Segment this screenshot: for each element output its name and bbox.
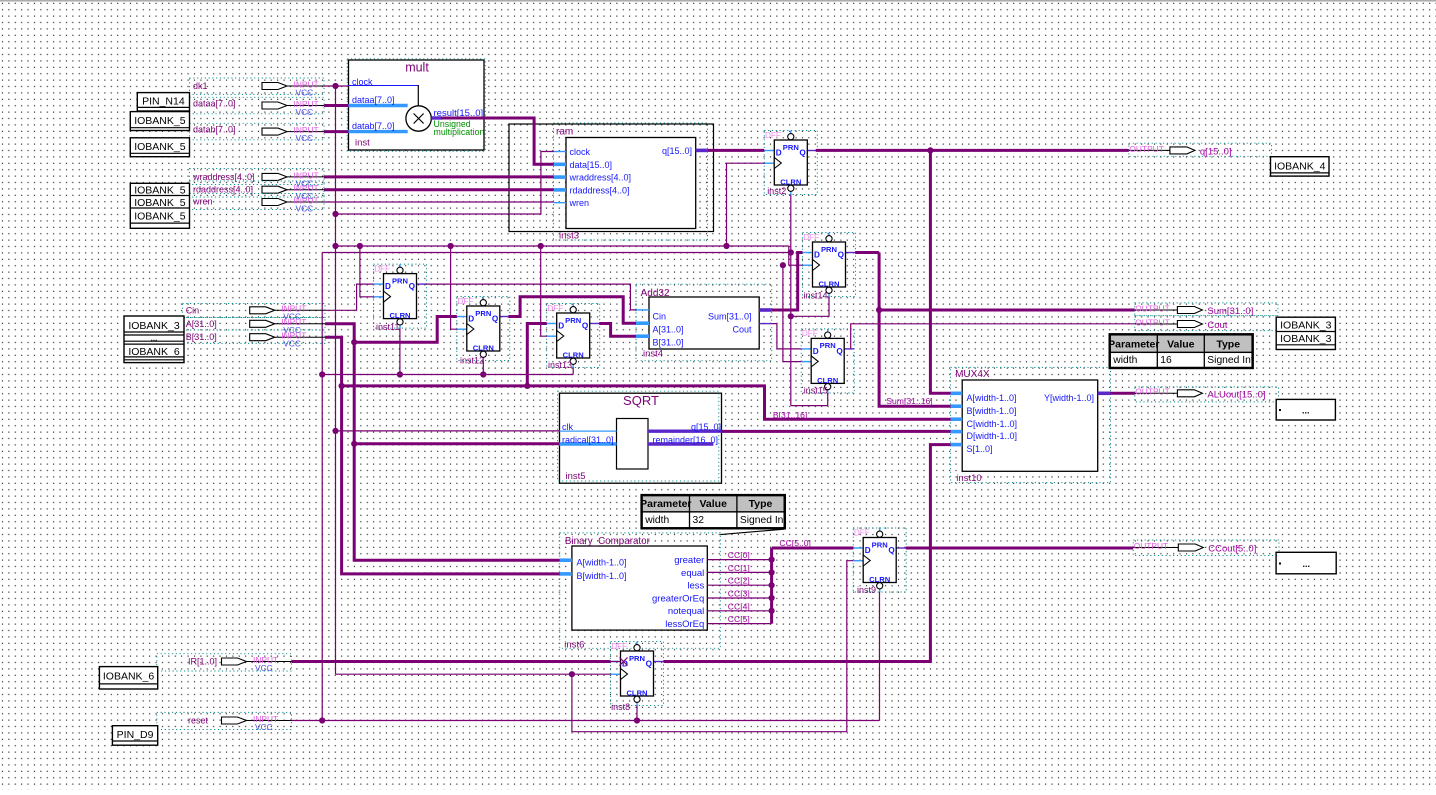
- svg-text:IOBANK_3: IOBANK_3: [128, 320, 180, 332]
- svg-text:A[width-1..0]: A[width-1..0]: [577, 557, 627, 567]
- svg-text:A[31..0]: A[31..0]: [186, 319, 217, 329]
- input pin datab[7..0]: [190, 123, 325, 143]
- svg-text:B[width-1..0]: B[width-1..0]: [967, 406, 1017, 416]
- svg-text:wraddress[4..0]: wraddress[4..0]: [192, 172, 255, 182]
- wire clock net: drop to inst14 clk: [789, 246, 803, 265]
- mult note Unsigned multiplication: [434, 119, 485, 137]
- ram port data[15..0]: [554, 160, 612, 170]
- svg-text:mult: mult: [405, 61, 429, 75]
- wire clock net: riser to inst13 clk: [541, 246, 547, 336]
- svg-text:OUTPUT: OUTPUT: [1135, 317, 1169, 327]
- svg-text:PRN: PRN: [565, 316, 581, 325]
- svg-text:CCout[5..0]: CCout[5..0]: [1208, 544, 1256, 555]
- svg-text:PIN_D9: PIN_D9: [117, 729, 154, 741]
- wire inst14 Q to Sum vertical: [855, 251, 879, 254]
- svg-text:Binary_Comparator: Binary_Comparator: [565, 536, 651, 547]
- wire inst2 Q to q output: [816, 149, 1129, 152]
- Add32 port B[31..0]: [636, 336, 684, 347]
- svg-text:CC[1]: CC[1]: [728, 563, 750, 573]
- svg-text:Q: Q: [799, 149, 806, 158]
- ram port rdaddress[4..0]: [554, 185, 630, 195]
- svg-text:greater: greater: [674, 555, 704, 566]
- svg-text:inst15: inst15: [804, 385, 828, 395]
- wire clock net: main vertical: [335, 86, 337, 674]
- connection X at inst8 D: [620, 658, 628, 666]
- svg-text:Q: Q: [838, 251, 845, 260]
- wire reset net: left vertical: [321, 253, 323, 721]
- wire clock net: loop to inst9 clk: [572, 561, 853, 732]
- svg-text:reset: reset: [188, 716, 209, 726]
- svg-text:Cin: Cin: [186, 305, 200, 315]
- Binary_Comparator port A[width-1..0]: [560, 557, 627, 567]
- Add32 port A[31..0]: [636, 323, 684, 334]
- svg-text:PIN_N14: PIN_N14: [142, 96, 185, 108]
- wire CC[1] from equal: [707, 571, 771, 573]
- D flip-flop DFF inst14: [803, 233, 856, 301]
- svg-text:DFF: DFF: [802, 329, 818, 338]
- wire inst8 Q to MUX S: [664, 445, 951, 662]
- svg-text:A[31..0]: A[31..0]: [653, 325, 684, 335]
- svg-text:Cout: Cout: [1207, 320, 1227, 331]
- wire Sum vertical to MUX B: [879, 253, 951, 407]
- MUX4X port A[width-1..0]: [951, 393, 1017, 403]
- pin location boxes IOBANK_5 c/d/e: [130, 183, 189, 228]
- svg-text:PRN: PRN: [783, 143, 799, 152]
- wire Sum to Sum output: [879, 309, 1135, 312]
- wire Add32 Cout to inst15 D: [772, 324, 802, 349]
- D flip-flop DFF inst11: [374, 264, 427, 332]
- svg-text:inst: inst: [355, 138, 370, 149]
- svg-text:B[31..0]: B[31..0]: [186, 332, 217, 342]
- svg-text:Q: Q: [888, 546, 895, 555]
- svg-text:clock: clock: [570, 147, 591, 157]
- svg-text:D[width-1..0]: D[width-1..0]: [967, 431, 1018, 441]
- wire A branch to inst12 D: [354, 317, 457, 343]
- wire A[31..0] bus to comparator A: [325, 324, 560, 560]
- Binary_Comparator port B[width-1..0]: [560, 571, 627, 581]
- svg-text:D: D: [558, 322, 564, 331]
- pin location box IOBANK_6 (IR): [99, 667, 157, 689]
- svg-text:D: D: [468, 315, 474, 324]
- wire ram q to inst2 D: [708, 149, 765, 152]
- svg-text:CC[4]: CC[4]: [728, 601, 750, 611]
- input pin wren: [190, 194, 325, 214]
- block SQRT symbol body: [558, 391, 722, 483]
- pin location box (CCout) with ellipsis: [1276, 552, 1336, 574]
- svg-text:inst5: inst5: [566, 471, 586, 482]
- mult port clock: [349, 77, 419, 106]
- svg-text:inst12: inst12: [460, 356, 484, 366]
- wire CC[2] from less: [707, 584, 771, 586]
- svg-text:SQRT: SQRT: [623, 393, 659, 408]
- svg-text:Q: Q: [646, 660, 653, 669]
- svg-text:DFF: DFF: [765, 131, 781, 140]
- D flip-flop DFF inst2: [764, 131, 817, 197]
- svg-text:inst3: inst3: [559, 231, 579, 242]
- svg-text:inst11: inst11: [376, 322, 399, 332]
- wire reset net: riser to inst9 CLRN: [879, 592, 881, 721]
- wire clock net: branch to SQRT clk: [336, 430, 560, 432]
- wire reset net: branch to inst14 CLRN: [791, 297, 829, 317]
- svg-text:Sum[31..0]: Sum[31..0]: [708, 311, 752, 321]
- svg-text:Q: Q: [836, 347, 843, 356]
- SQRT port clk: [560, 422, 617, 432]
- svg-text:rdaddress[4..0]: rdaddress[4..0]: [570, 185, 630, 195]
- output pin CCout[5..0]: [1133, 540, 1279, 556]
- svg-text:ALUout[15..0]: ALUout[15..0]: [1207, 389, 1265, 400]
- svg-text:CLRN: CLRN: [563, 351, 584, 360]
- svg-text:CC[5..0]: CC[5..0]: [779, 538, 811, 548]
- svg-text:wraddress[4..0]: wraddress[4..0]: [569, 173, 632, 183]
- svg-text:MUX4X: MUX4X: [955, 369, 990, 380]
- svg-text:dataa[7..0]: dataa[7..0]: [193, 98, 236, 108]
- svg-text:Parameter: Parameter: [1108, 338, 1159, 350]
- svg-text:32: 32: [693, 515, 705, 526]
- junction dots clock net: [332, 83, 786, 677]
- svg-text:D: D: [865, 546, 871, 555]
- block Add32 symbol body: [636, 284, 772, 361]
- wire reset net: riser to inst11 CLRN: [399, 328, 401, 374]
- MUX4X port S[1..0]: [951, 444, 993, 454]
- wire inst9 Q to CCout output: [906, 547, 1133, 550]
- input pin B[31..0]: [182, 330, 325, 349]
- svg-text:inst10: inst10: [956, 473, 981, 484]
- MUX4X port D[width-1..0]: [951, 431, 1017, 441]
- input pin IR[1..0]: [157, 654, 292, 673]
- input pin Cin: [182, 304, 325, 322]
- svg-text:VCC: VCC: [255, 722, 273, 732]
- Add32 port Sum[31..0]: [708, 310, 772, 321]
- wire reset net: inst2 CLRN drop: [790, 195, 792, 406]
- output pin Cout: [1135, 316, 1278, 331]
- ram port wraddress[4..0]: [554, 173, 631, 183]
- D flip-flop DFF inst13: [547, 304, 600, 371]
- D flip-flop DFF inst15: [801, 329, 854, 395]
- input pin A[31..0]: [182, 317, 325, 335]
- svg-text:greaterOrEq: greaterOrEq: [652, 593, 704, 604]
- wire wren: [323, 201, 554, 203]
- svg-text:inst13: inst13: [548, 360, 572, 370]
- svg-text:IOBANK_5: IOBANK_5: [134, 211, 186, 223]
- wire clock net: dk1 pin to mult clock: [324, 85, 349, 87]
- ram port q[15..0]: [662, 146, 708, 156]
- svg-text:Q: Q: [492, 315, 499, 324]
- svg-text:Q: Q: [582, 322, 589, 331]
- svg-text:Value: Value: [1167, 338, 1195, 350]
- mult port dataa[7..0]: [349, 95, 408, 106]
- svg-text:wren: wren: [569, 198, 590, 208]
- svg-text:CC[0]: CC[0]: [728, 550, 750, 560]
- svg-text:IOBANK_5: IOBANK_5: [134, 115, 186, 127]
- svg-text:CLRN: CLRN: [389, 311, 410, 320]
- svg-text:lessOrEq: lessOrEq: [665, 619, 704, 630]
- wire A branch to SQRT radical: [354, 442, 559, 445]
- wire CC[5] from lessOrEq: [707, 623, 771, 625]
- svg-text:VCC: VCC: [296, 203, 314, 213]
- svg-text:Cout: Cout: [732, 325, 752, 335]
- svg-text:IOBANK_3: IOBANK_3: [1280, 320, 1332, 332]
- svg-text:datab[7..0]: datab[7..0]: [193, 124, 236, 134]
- svg-text:16: 16: [1160, 355, 1172, 366]
- svg-text:inst2: inst2: [767, 186, 786, 196]
- svg-text:q[15..0]: q[15..0]: [662, 146, 692, 156]
- svg-text:PRN: PRN: [821, 245, 837, 254]
- svg-text:CLRN: CLRN: [626, 689, 647, 698]
- pin location box PIN_N14: [137, 93, 189, 111]
- svg-text:C[width-1..0]: C[width-1..0]: [967, 419, 1018, 429]
- block MUX4X symbol body: [951, 367, 1111, 482]
- svg-text:inst4: inst4: [643, 349, 663, 360]
- svg-text:dataa[7..0]: dataa[7..0]: [352, 95, 395, 105]
- svg-text:ram: ram: [556, 127, 573, 138]
- block Binary_Comparator symbol body: [560, 533, 721, 648]
- svg-text:...: ...: [1302, 406, 1310, 416]
- svg-text:notequal: notequal: [668, 606, 704, 617]
- svg-text:CC[5]: CC[5]: [728, 614, 750, 624]
- svg-text:VCC: VCC: [296, 87, 314, 97]
- junction dots reset net: [319, 249, 794, 723]
- wire inst15 Q to Cout output: [851, 324, 1135, 349]
- D flip-flop DFF inst9: [853, 528, 906, 595]
- svg-text:CLRN: CLRN: [817, 376, 838, 385]
- SQRT port radical[31..0]: [560, 435, 617, 445]
- wire CC[5..0] merge vertical: [770, 548, 773, 624]
- output pin ALUout[15..0]: [1135, 387, 1279, 402]
- MUX4X port Y[width-1..0]: [1044, 393, 1111, 403]
- svg-text:width: width: [644, 515, 669, 526]
- wire inst8 D stub lead: [611, 661, 621, 663]
- D flip-flop DFF inst8: [611, 642, 664, 712]
- D flip-flop DFF inst12: [457, 297, 510, 366]
- input pin dk1: [190, 78, 325, 97]
- svg-text:wren: wren: [192, 196, 213, 206]
- block mult (unsigned multiplier) symbol body: [347, 59, 485, 152]
- svg-text:CLRN: CLRN: [473, 344, 494, 353]
- svg-text:OUTPUT: OUTPUT: [1134, 541, 1168, 551]
- output pin Sum[31..0]: [1135, 303, 1278, 317]
- svg-text:radical[31..0]: radical[31..0]: [562, 435, 614, 445]
- pin location box IOBANK_5 a: [130, 112, 189, 131]
- svg-text:Add32: Add32: [641, 288, 670, 299]
- svg-text:B[31..16]: B[31..16]: [773, 410, 807, 420]
- svg-text:VCC: VCC: [296, 107, 314, 117]
- wire rdaddress[4..0] bus: [324, 188, 554, 191]
- wire B branch to MUX C (B[31..16]): [342, 386, 951, 419]
- svg-text:IOBANK_6: IOBANK_6: [103, 671, 155, 683]
- svg-text:DFF: DFF: [458, 297, 474, 306]
- wire reset net: branch to inst15 CLRN: [791, 393, 828, 406]
- svg-text:VCC: VCC: [255, 663, 273, 673]
- wire reset net: riser to inst13 CLRN: [572, 368, 574, 375]
- svg-text:PRN: PRN: [629, 654, 645, 663]
- svg-text:D: D: [814, 251, 820, 260]
- svg-text:...: ...: [151, 334, 158, 343]
- input pin rdaddress[4..0]: [190, 181, 325, 201]
- svg-text:width: width: [1112, 355, 1137, 366]
- input pin wraddress[4..0]: [190, 169, 325, 189]
- svg-text:CLRN: CLRN: [818, 280, 839, 289]
- svg-text:S[1..0]: S[1..0]: [967, 444, 993, 454]
- pin location box IOBANK_3 / IOBANK_6 stack: [124, 316, 184, 363]
- mult multiplier circle symbol: [406, 106, 431, 131]
- mult port datab[7..0]: [349, 121, 408, 132]
- wire B branch to inst13 D: [527, 324, 546, 386]
- svg-text:OUTPUT: OUTPUT: [1135, 303, 1169, 313]
- svg-text:clock: clock: [352, 77, 373, 87]
- wire wraddress[4..0] bus: [324, 175, 554, 178]
- output pin q[15..0]: [1129, 143, 1272, 157]
- svg-text:less: less: [687, 581, 704, 592]
- wire MUX Y to ALUout output: [1111, 392, 1135, 395]
- svg-text:inst14: inst14: [804, 290, 828, 300]
- svg-text:remainder[16..0]: remainder[16..0]: [653, 435, 719, 445]
- svg-text:Signed Int: Signed Int: [1207, 355, 1254, 366]
- wire mult result to ram data: [441, 118, 554, 164]
- svg-text:clk: clk: [562, 422, 573, 432]
- pin location box IOBANK_4: [1271, 157, 1330, 176]
- input pin reset: [157, 712, 292, 732]
- wire inst13 Q to Add32 B: [599, 324, 636, 337]
- parameter table of Binary_Comparator (width=32): [640, 495, 786, 529]
- junction dots bus nets: [339, 147, 934, 447]
- wire CC[3] from greaterOrEq: [707, 597, 771, 599]
- svg-text:DFF: DFF: [611, 642, 627, 651]
- wire datab[7..0] pin to mult: [324, 130, 349, 133]
- svg-text:Q: Q: [409, 282, 416, 291]
- svg-text:Sum[31..16]: Sum[31..16]: [886, 396, 932, 406]
- svg-text:Type: Type: [749, 498, 773, 510]
- svg-text:D: D: [385, 282, 391, 291]
- svg-text:IOBANK_5: IOBANK_5: [134, 197, 186, 209]
- svg-text:Value: Value: [699, 498, 727, 510]
- junction dots CC bus: [769, 557, 775, 614]
- MUX4X port B[width-1..0]: [951, 406, 1017, 416]
- ram port clock: [554, 147, 591, 157]
- pin location box PIN_D9: [112, 726, 157, 746]
- svg-text:OUTPUT: OUTPUT: [1129, 144, 1163, 154]
- wire reset net: riser to inst12 CLRN: [482, 361, 484, 375]
- svg-text:VCC: VCC: [283, 339, 301, 349]
- wire clock net: riser to inst11 clk: [360, 246, 374, 297]
- svg-text:dk1: dk1: [193, 81, 208, 91]
- wire reset net: inst8 CLRN drop: [636, 706, 638, 721]
- svg-text:IR[1..0]: IR[1..0]: [188, 657, 217, 667]
- svg-text:PRN: PRN: [820, 341, 836, 350]
- pin location box IOBANK_5 b: [130, 138, 189, 157]
- svg-text:Parameter: Parameter: [640, 498, 691, 510]
- svg-text:q[15..0]: q[15..0]: [691, 422, 721, 432]
- mult result output stub: [431, 116, 442, 119]
- input pin dataa[7..0]: [190, 97, 325, 117]
- svg-text:D: D: [813, 347, 819, 356]
- ram port wren: [554, 198, 589, 208]
- svg-text:CC[2]: CC[2]: [728, 576, 750, 586]
- wire reset net: upper CLRN row: [322, 252, 791, 254]
- svg-text:data[15..0]: data[15..0]: [570, 160, 613, 170]
- svg-text:IOBANK_5: IOBANK_5: [134, 185, 186, 197]
- wire q branch to MUX A: [930, 150, 950, 393]
- svg-text:datab[7..0]: datab[7..0]: [352, 121, 395, 131]
- svg-text:IOBANK_3: IOBANK_3: [1280, 333, 1332, 345]
- pin location box (ALUout) with ellipsis: [1276, 399, 1335, 420]
- svg-text:inst8: inst8: [611, 702, 630, 712]
- SQRT port remainder[16..0]: [648, 435, 718, 445]
- SQRT port q[15..0]: [648, 422, 722, 432]
- wire clock net: branch to ram clock: [336, 152, 554, 215]
- annotation rectangle around ram: [509, 124, 714, 232]
- svg-text:Signed Int: Signed Int: [740, 515, 787, 526]
- MUX4X port C[width-1..0]: [951, 419, 1017, 429]
- svg-text:IOBANK_5: IOBANK_5: [134, 141, 186, 153]
- svg-text:equal: equal: [681, 568, 704, 579]
- parameter table of MUX4X (width=16): [1108, 334, 1254, 369]
- svg-text:multiplication: multiplication: [434, 127, 485, 137]
- Add32 port Cout: [732, 324, 771, 335]
- svg-text:q[15..0]: q[15..0]: [1200, 146, 1232, 157]
- svg-text:IOBANK_4: IOBANK_4: [1274, 161, 1326, 173]
- block ram symbol body: [554, 123, 708, 240]
- wire B[31..0] bus to comparator B: [325, 337, 560, 574]
- svg-text:A[width-1..0]: A[width-1..0]: [967, 393, 1017, 403]
- wire reset net: reset pin horizontal: [292, 720, 880, 722]
- svg-text:Y[width-1..0]: Y[width-1..0]: [1044, 393, 1094, 403]
- pin location box IOBANK_3 pair (Sum/Cout): [1276, 317, 1335, 349]
- wire inst12 Q to Add32 A: [509, 297, 637, 323]
- wire IR[1..0] bus to inst8 D: [292, 660, 611, 663]
- wire reset net: CLRN row for inst11-13: [322, 374, 573, 376]
- svg-text:CC[3]: CC[3]: [728, 589, 750, 599]
- wire CC[4] from notequal: [707, 610, 771, 612]
- wire SQRT q to MUX D: [722, 430, 951, 433]
- svg-text:VCC: VCC: [296, 133, 314, 143]
- svg-text:inst9: inst9: [857, 585, 876, 595]
- svg-text:PRN: PRN: [392, 276, 408, 285]
- leader line from parameter table to Binary_Comparator: [720, 529, 784, 534]
- wire clock net: drop to inst15 clk: [783, 265, 801, 361]
- svg-text:PRN: PRN: [872, 540, 888, 549]
- wire clock net: horizontal distribution: [336, 245, 789, 247]
- svg-text:DFF: DFF: [854, 528, 870, 537]
- wire clock net: riser to inst2 clk: [727, 163, 765, 246]
- wire clock net: riser to inst12 clk: [451, 246, 457, 329]
- svg-text:OUTPUT: OUTPUT: [1135, 387, 1169, 397]
- wire CC[0] from greater: [707, 559, 771, 561]
- wire Add32 Sum to inst14 D: [772, 253, 803, 311]
- wire Cin pin to inst11 D: [325, 284, 374, 310]
- svg-text:Cin: Cin: [653, 311, 667, 321]
- wire CC bus to inst9 D: [772, 547, 854, 550]
- svg-text:B[width-1..0]: B[width-1..0]: [577, 571, 627, 581]
- svg-text:inst6: inst6: [564, 639, 584, 650]
- svg-text:CLRN: CLRN: [869, 575, 890, 584]
- svg-text:DFF: DFF: [374, 264, 390, 273]
- svg-text:DFF: DFF: [547, 304, 563, 313]
- svg-text:Type: Type: [1216, 338, 1240, 350]
- Add32 port Cin: [636, 310, 666, 321]
- svg-text:PRN: PRN: [475, 309, 491, 318]
- svg-text:...: ...: [1302, 559, 1310, 569]
- wire inst11 Q to Add32 Cin: [426, 284, 636, 310]
- svg-text:D: D: [776, 149, 782, 158]
- wire clock net: branch to inst8 clk: [336, 673, 611, 675]
- wire dataa[7..0] pin to mult: [324, 104, 349, 107]
- svg-text:IOBANK_6: IOBANK_6: [128, 346, 180, 358]
- svg-text:DFF: DFF: [803, 233, 819, 242]
- svg-text:B[31..0]: B[31..0]: [653, 338, 684, 348]
